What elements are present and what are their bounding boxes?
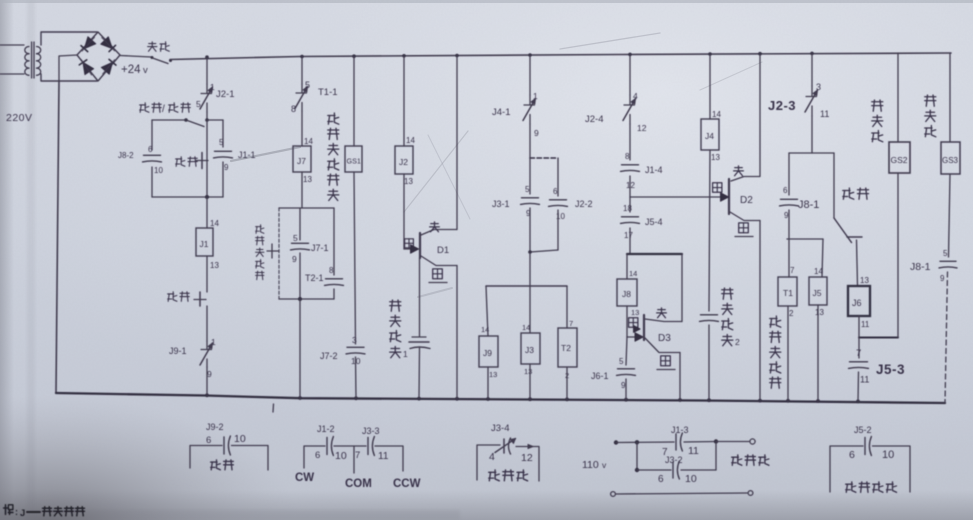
wire col-C mid [354,172,356,344]
arrow into D1 base [411,245,419,253]
wire D2 collector rail [759,54,761,176]
contact J2-1 [196,82,215,112]
label 220V [6,112,33,124]
label hei (black) D3 [629,318,638,328]
contact limit switch 1 [409,337,430,349]
photo smudges [231,33,762,297]
label J1-3 [671,425,689,435]
board GS1 [345,146,362,172]
label J2-1 [216,89,234,100]
wire CCW leg [375,446,403,471]
wire col-A mid [206,120,208,197]
contact J1-2 [315,437,347,463]
wire col-A to bus [206,367,208,395]
wire col-C to bus [355,357,358,398]
vertical label small button [256,225,264,280]
wire brake lower right [681,442,716,471]
wire J9 to bus [487,367,489,399]
contact J7-2 [346,335,365,366]
wire col-K upper [897,53,899,142]
stray mark below bus [272,404,275,412]
label zong (brown) D2 [734,166,744,176]
wire col-J upper [811,53,813,86]
wire col-A to J1 [206,197,208,228]
bottom bus junctions [205,393,860,403]
wire col-A upper [206,57,208,84]
label D2 [740,195,753,206]
wire drop to T2 [566,286,568,328]
label zong (brown) D1 [430,222,440,232]
wire col-F upper [629,55,631,96]
contact J8-2 [143,145,164,175]
bridge rectifier VD1-VD4 [77,32,120,81]
wire D2 collector [731,177,760,182]
label lan (blue) D1 [429,269,447,283]
wire top bus [170,53,951,60]
wire J2-2 branch lower [530,210,558,252]
vertical label control positioning pin [770,316,781,388]
wire J6 to junction [858,316,860,337]
label J7-1 [311,243,329,253]
wire col-B to bus [299,299,301,398]
pin 7 of T2 [569,319,573,328]
contact J2-3 [805,82,829,119]
wire J8-2 branch bottom [152,167,207,197]
wire D1 emitter [421,256,457,399]
label chaoyue [211,460,234,470]
label J3-2 [665,455,683,465]
pin 11 of J6 [861,320,870,329]
contact J4-1 [523,91,539,138]
relay coil J5 [809,277,827,305]
wire drop to J9 [486,286,488,336]
wire center branch lower [299,253,301,299]
wire col-B upper [301,57,303,85]
label COM [345,478,372,490]
label J1-2 [317,424,335,434]
contact J5-3 [849,348,870,385]
vertical label yayaban right [925,95,936,137]
wire T2 to bus [566,367,568,400]
relay coil J1 [196,228,213,256]
label CW [295,472,314,484]
wire limit-sw1 branch [419,258,421,336]
wire J8-2 branch left [151,120,153,150]
label J2-3 [768,98,796,113]
label jiting [148,42,170,52]
wire D3 collector [645,254,682,322]
pin 14 of J9 [481,325,489,334]
relay coil J4 [701,119,719,150]
wire col-A to node [206,112,208,120]
wire drop to J3 [529,286,531,333]
transformer T1 (220V mains) [0,32,97,81]
board GS3 [941,142,960,174]
label J8-1 left [798,199,819,211]
wire col-F c [629,228,631,254]
wire col-B to J7 [301,111,303,146]
contact T1-1 [291,80,310,114]
label J2-2 [575,199,593,209]
wire col-L mid [949,174,951,257]
label J5-2 [854,425,872,435]
wire left rail [56,81,59,393]
vertical label limit switch 2 [722,288,740,347]
contact J3-1 [521,185,540,218]
label shachexian [732,455,769,465]
label futing (reset) [168,292,190,302]
relay coil J7 [293,146,311,172]
pin 13 of J4 [711,153,720,162]
wire T1 to bus [787,306,789,401]
label J2-4 [585,114,603,125]
pin 13 of J5 [815,308,824,317]
relay coil J6 (bold) [848,286,870,316]
wire brake bottom [611,491,753,497]
contact J2-2 [549,187,568,221]
pin 14 of J2 [406,136,415,145]
label D1 [437,245,449,256]
pin 13 of J2 [404,177,413,186]
label zong (brown) D3 [657,308,667,318]
contact J8-1 right [939,249,957,283]
contact J3-3 [368,437,389,463]
wire brake lower branch [635,442,671,472]
wire pedal to J6 [857,240,858,286]
wire col-A below J1 [206,256,208,292]
contact J1-4 [621,152,640,190]
node auto/manual top [184,118,209,122]
label qiqibaohu [846,482,897,492]
pin 2 of T2 [565,371,569,380]
wire bridge to left rail [59,55,77,81]
switch pedal blade [834,218,862,243]
wire drop to T1 [788,239,790,277]
pin 14 of J3 [522,323,530,332]
wire thick link to D3 collector [627,253,682,255]
label lan (blue) D3 [657,356,675,370]
wire J3-1 branch lower [529,208,531,252]
label tiaosuxian [489,470,528,481]
pin 2 of T1 [789,309,794,318]
label auto/manual [140,103,191,115]
wire J3 to bus [529,364,531,399]
pin 13 of J1 [210,261,219,270]
contact J3-4 [495,438,533,454]
wire right branch upper [333,208,335,275]
wire col-L dashed to bus [945,272,948,403]
wire brake top [614,440,674,445]
label J8-2 [118,151,134,160]
wire col-L upper [949,53,951,142]
wire COM leg [334,446,366,473]
wire center branch upper [299,208,301,240]
time relay T2 [558,328,577,367]
contact T2-1 [325,266,344,285]
wire col-H mid [709,150,710,311]
contact J8-1 left [780,186,799,220]
wire coil rail [486,285,567,287]
label J4-1 [492,107,510,118]
pushbutton futing [194,292,206,306]
vertical label limit switch 1 [390,300,408,359]
wire col-A to J9-1 [206,306,208,341]
wire D3 emitter [645,338,680,400]
contact J9-2 [206,433,246,455]
contact J3-2 [658,461,697,485]
label D3 [658,333,671,344]
wire J6-1 branch [626,337,627,365]
wire D3 base [627,336,643,338]
wire J3-1 branch upper [529,158,531,194]
pin 14 of J7 [304,137,313,146]
wire bottom bus [56,393,945,403]
label J9-2 [206,422,224,432]
pin 14 of J8 [629,269,637,278]
label +24v [121,64,148,76]
pin 13 of J9 [489,370,497,379]
wire col-K lower [897,173,899,338]
pin 14 of J4 [712,110,721,119]
pin 13 of J6 [860,276,869,285]
relay coil J9 [479,336,498,367]
transistor D3 bar [643,315,645,340]
transistor D2 bar [728,179,730,214]
contact J5-4 [621,204,640,240]
transistor D1 bar [419,233,421,258]
wire D1 base feed [404,248,418,250]
label T2-1 [305,273,324,283]
label J3-1 [492,199,510,209]
node pair bottom [528,250,532,254]
wire J8 to base node [626,306,628,337]
label CCW [393,478,421,490]
relay coil J3 [521,333,540,364]
wire CW leg [304,446,325,468]
wire col-F b [629,176,631,212]
pin 7 of T1 [790,266,795,275]
contact J7-1 [291,233,310,264]
pushbutton shandong [196,153,208,169]
node col-A bottom of loop [205,195,209,199]
pushbutton on left branch [267,244,279,258]
wire right branch lower [333,289,335,299]
switch jiting (emergency stop) [151,56,173,64]
pin 14 of J5 [814,267,823,276]
wire col-H to bus [708,325,710,400]
pin 14 of J1 [210,219,219,228]
wire T1/J5 bar [787,238,823,240]
label shandong (fan) [176,157,198,167]
wire limit-sw1 to bus [418,348,421,399]
wire D1 collector [421,56,457,236]
pin 13 of J8 [631,308,639,317]
label J8-1 right [910,261,931,273]
wire J8-1 to T-bar [788,210,790,239]
label T1-1 [318,87,338,98]
wire tiaosu bracket [477,445,539,481]
wire J1-1 branch right [207,120,223,147]
label J7-2 [320,351,338,361]
label 110V [582,459,607,471]
arrow into D2 base [721,193,729,201]
wire D2 base feed [630,196,720,198]
vertical label yayaban left [872,100,883,142]
wire parallel box bottom [279,297,334,301]
wire J6-1 to bus [625,379,627,400]
wire drop to J5 [822,239,823,277]
wire +24V feed [120,56,151,58]
wire D2 emitter [730,212,760,401]
wire junction to J5-3 [858,338,860,359]
label J3-4 [491,423,509,434]
wire pedal branch [833,153,835,218]
contact J6-1 [617,357,636,390]
wire col-E upper [529,55,531,95]
wire parallel box top [279,207,334,209]
wire qiqi bracket [830,446,910,492]
wire col-D upper [403,56,405,146]
label J3-3 [362,426,380,436]
label J5-4 [645,217,663,227]
contact J9-1 [200,337,216,379]
wire J6/GS2 junction bar [859,337,898,339]
contact J5-2 [849,437,894,462]
wire col-H upper [709,54,711,119]
wire J9-2 bracket [190,446,268,471]
label J6-1 [591,371,609,381]
wire J5-3 to bus [857,372,860,401]
pin 13 of J3 [524,367,532,376]
note bottom-left [4,505,85,519]
wire col-D below J2 [403,174,405,249]
switch auto/manual blade [152,120,204,127]
wire parallel left branch [278,208,280,299]
wire col-J to split [811,116,813,153]
label J5-3 [876,362,905,377]
label J1-1 [238,150,256,160]
wire col-B below J7 [301,172,303,208]
wire col-E to coil rail [529,252,531,286]
pin 13 of J7 [303,175,312,184]
label lan (blue) D2 [735,223,753,237]
label hei (black) D2 [713,183,722,193]
relay coil J2 [395,146,413,174]
top bus junctions [205,52,814,59]
relay coil J8 [617,279,637,306]
label hei (black) D1 [405,239,414,248]
wire J2-2 branch upper [557,158,559,196]
wire J5 to bus [817,305,819,401]
contact limit switch 2 [700,315,719,322]
wire split bar [789,152,834,154]
wire col-C upper [353,56,355,146]
wire col-F a [629,124,631,160]
contact J2-4 [623,91,647,133]
board GS2 [889,142,910,173]
label jiaota (pedal) [843,188,869,199]
wire J8-1 branch [788,153,790,195]
wire col-E to pair node [529,124,531,158]
contact J1-3 [662,433,699,458]
time relay T1 [778,277,797,306]
wire brake top right [684,439,755,444]
contact J1-1 [214,138,233,172]
wire into J8 [626,254,628,279]
wire J1-1 branch bottom [207,162,223,197]
vertical label yeweiji (level gauge solenoid) [328,113,339,201]
label J9-1 [169,346,187,356]
label J1-4 [645,165,663,175]
wire pair top [530,157,558,159]
arrow into D3 base [634,326,643,342]
pins of J3-4 [489,451,533,464]
